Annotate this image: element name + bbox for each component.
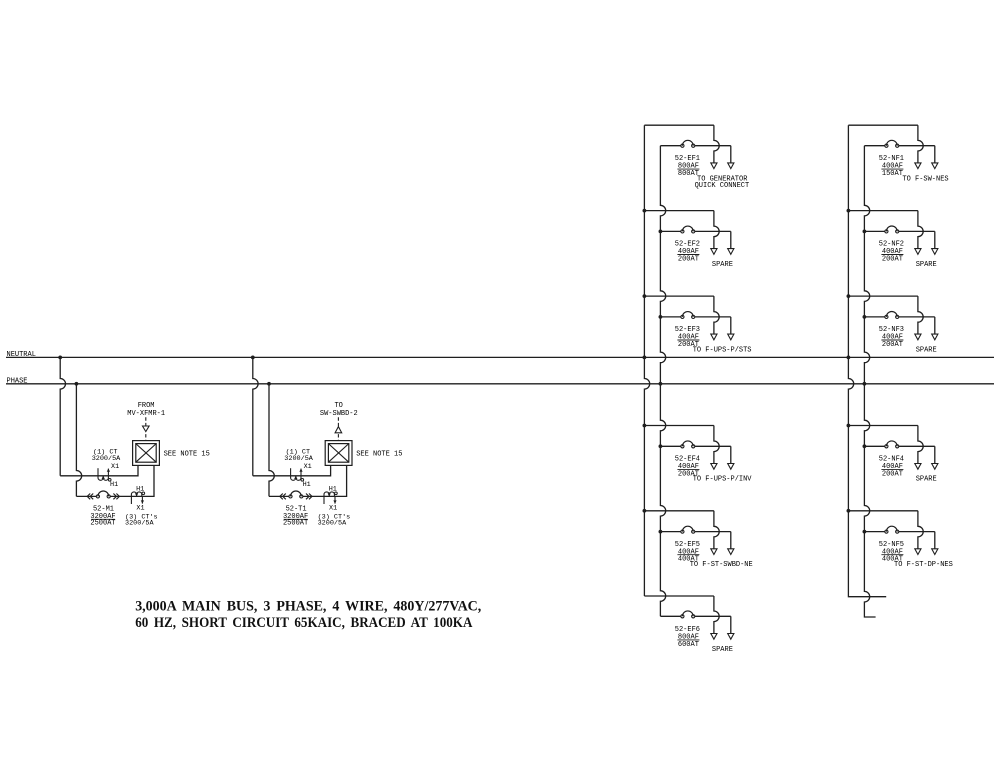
wire: neutral drop to arrow with hop over feeder: [714, 596, 719, 634]
svg-text:TO F-ST-DP-NES: TO F-ST-DP-NES: [894, 561, 953, 569]
svg-text:TO F-UPS-P/STS: TO F-UPS-P/STS: [693, 346, 752, 354]
svg-text:PHASE: PHASE: [7, 378, 28, 386]
wire: neutral drop to arrow with hop over feeder: [918, 125, 923, 163]
load arrow (neutral): [915, 163, 921, 169]
junction node riser/feeder row 3: [659, 315, 663, 319]
wire: cell top (neutral): [644, 510, 714, 512]
load arrow (phase): [728, 464, 734, 470]
svg-text:QUICK CONNECT: QUICK CONNECT: [695, 182, 750, 190]
svg-text:200AT: 200AT: [882, 470, 903, 478]
load arrow (phase): [932, 334, 938, 340]
svg-text:SPARE: SPARE: [916, 476, 937, 484]
wire: neutral drop to arrow with hop over feeder: [714, 125, 719, 163]
wire: phase drop to arrow: [730, 231, 732, 248]
CT (1) 3200/5A on upper wire: [92, 449, 121, 489]
drawout breaker 52-T1: [280, 494, 283, 500]
load arrow (phase): [728, 634, 734, 640]
CT (3) 3200/5A on lower wire: [318, 485, 351, 527]
junction node riser/top row 4: [643, 424, 647, 428]
junction node riser/top row 5: [847, 509, 851, 513]
feeder breaker cell 52-NF5: [848, 511, 952, 569]
wire: EF neutral riser: [644, 125, 649, 596]
svg-text:H1: H1: [329, 485, 337, 493]
load arrow (phase): [728, 163, 734, 169]
junction node riser/top row 4: [847, 424, 851, 428]
wire: EF phase riser: [660, 146, 665, 617]
wire: feeder through breaker 52-EF6: [660, 615, 680, 617]
wire: neutral drop with hop over phase bus: [253, 357, 258, 475]
svg-text:SEE NOTE 15: SEE NOTE 15: [356, 451, 402, 459]
wire: neutral drop to arrow with hop over feeder: [918, 296, 923, 334]
junction node NF neutral riser to neutral bus: [847, 356, 851, 360]
wire: NF neutral riser: [848, 125, 886, 597]
wire: phase drop with hop over upper wire: [76, 384, 81, 497]
wire: feeder through breaker 52-NF3: [864, 316, 884, 318]
svg-text:200AT: 200AT: [882, 341, 903, 349]
wire: phase drop with hop over upper wire: [269, 384, 274, 497]
neutral bus: [6, 356, 994, 358]
svg-text:SPARE: SPARE: [712, 646, 733, 654]
svg-text:200AT: 200AT: [882, 256, 903, 264]
svg-text:NEUTRAL: NEUTRAL: [7, 351, 36, 359]
wire: lower run to breaker: [76, 495, 96, 497]
wire: neutral drop to arrow with hop over feeder: [714, 296, 719, 334]
drawout breaker 52-M1: [87, 494, 90, 500]
load arrow (neutral): [711, 334, 717, 340]
load arrow (phase): [932, 464, 938, 470]
feeder breaker cell 52-NF2: [848, 211, 938, 269]
svg-text:3200/5A: 3200/5A: [125, 520, 154, 528]
breaker 52-EF6: [681, 615, 684, 618]
junction node on phase bus: [267, 382, 271, 386]
svg-text:TO F-ST-SWBD-NE: TO F-ST-SWBD-NE: [690, 561, 753, 569]
breaker 52-EF5: [681, 530, 684, 533]
load arrow (neutral): [915, 464, 921, 470]
wire: neutral drop to arrow with hop over feeder: [918, 511, 923, 549]
junction node riser/feeder row 3: [863, 315, 867, 319]
wire: cell top (neutral): [848, 124, 918, 126]
wire: cell top (neutral): [848, 425, 918, 427]
feeder breaker cell 52-NF1: [848, 125, 948, 183]
wire: neutral drop to arrow with hop over feeder: [714, 511, 719, 549]
feeder breaker cell 52-EF2: [644, 211, 734, 269]
wire: feeder through breaker 52-NF5: [864, 531, 884, 533]
wire: feeder through breaker 52-EF2: [660, 230, 680, 232]
feeder breaker cell 52-EF3: [644, 296, 751, 354]
load arrow (neutral): [711, 549, 717, 555]
breaker 52-NF3: [885, 315, 888, 318]
junction node on phase bus: [75, 382, 79, 386]
feeder breaker cell 52-EF6: [644, 596, 734, 654]
svg-text:FROM: FROM: [138, 402, 155, 410]
junction node riser/top row 2: [643, 209, 647, 213]
svg-text:2500AT: 2500AT: [90, 520, 115, 528]
load arrow (neutral): [915, 334, 921, 340]
incoming/outgoing feeder arrow (TO SW-SWBD-2): [320, 402, 358, 441]
svg-text:600AT: 600AT: [678, 641, 699, 649]
wire: feeder through breaker 52-NF1: [864, 145, 884, 147]
wire: cell top (neutral): [848, 295, 918, 297]
incoming/outgoing feeder arrow (FROM MV-XFMR-1): [127, 402, 165, 441]
svg-text:MV-XFMR-1: MV-XFMR-1: [127, 410, 165, 418]
feeder breaker cell 52-NF4: [848, 426, 938, 484]
load arrow (neutral): [915, 549, 921, 555]
wire: phase drop to arrow: [934, 146, 936, 163]
wire: lower run to breaker: [269, 495, 289, 497]
junction node riser/top row 3: [847, 294, 851, 298]
svg-text:3200/5A: 3200/5A: [318, 520, 347, 528]
breaker 52-NF4: [885, 445, 888, 448]
junction node riser/feeder row 4: [863, 444, 867, 448]
wire: phase drop to arrow: [934, 446, 936, 463]
wire: cell top (neutral): [644, 124, 714, 126]
wire: upper secondary run to box: [60, 465, 138, 475]
svg-text:3200/5A: 3200/5A: [92, 455, 121, 463]
breaker 52-EF2: [681, 230, 684, 233]
load arrow (phase): [932, 549, 938, 555]
breaker 52-NF5: [885, 530, 888, 533]
wire: feeder through breaker 52-EF5: [660, 531, 680, 533]
junction node riser/feeder row 2: [863, 230, 867, 234]
wire: phase drop to arrow: [730, 317, 732, 334]
load arrow (neutral): [711, 464, 717, 470]
svg-text:X1: X1: [136, 504, 144, 512]
svg-text:H1: H1: [110, 481, 118, 489]
load arrow (neutral): [711, 634, 717, 640]
wire: neutral drop to arrow with hop over feeder: [714, 211, 719, 249]
svg-text:TO: TO: [334, 402, 342, 410]
wire: neutral drop to arrow with hop over feeder: [918, 211, 923, 249]
wire: neutral drop to arrow with hop over feeder: [918, 426, 923, 464]
junction node riser/top row 3: [643, 294, 647, 298]
main circuit 52-M1: [58, 356, 210, 528]
svg-text:200AT: 200AT: [678, 256, 699, 264]
wire: neutral drop with hop over phase bus: [60, 357, 65, 475]
feeder breaker cell 52-EF1: [644, 125, 749, 190]
phase bus: [6, 383, 994, 385]
wire: phase drop to arrow: [730, 446, 732, 463]
wire: phase drop to arrow: [730, 532, 732, 549]
wire: feeder through breaker 52-EF1: [660, 145, 680, 147]
wire: cell top (neutral): [644, 295, 714, 297]
wire: feeder through breaker 52-EF4: [660, 445, 680, 447]
load arrow (phase): [932, 163, 938, 169]
main circuit 52-T1: [251, 356, 403, 528]
wire: phase drop to arrow: [934, 231, 936, 248]
load arrow (neutral): [915, 249, 921, 255]
svg-text:SPARE: SPARE: [916, 261, 937, 269]
wire: phase drop to arrow: [730, 616, 732, 633]
wire: phase drop to arrow: [730, 146, 732, 163]
CT (1) 3200/5A on upper wire: [284, 449, 313, 489]
junction node riser/feeder row 2: [659, 230, 663, 234]
svg-text:SPARE: SPARE: [712, 261, 733, 269]
svg-text:3,000A MAIN BUS, 3 PHASE, 4 WI: 3,000A MAIN BUS, 3 PHASE, 4 WIRE, 480Y/2…: [135, 598, 481, 614]
load arrow (neutral): [711, 249, 717, 255]
breaker 52-EF1: [681, 144, 684, 147]
svg-text:SEE NOTE 15: SEE NOTE 15: [164, 451, 210, 459]
svg-text:H1: H1: [303, 481, 311, 489]
junction node riser/feeder row 5: [863, 530, 867, 534]
svg-text:H1: H1: [136, 485, 144, 493]
wire: phase drop to arrow: [934, 532, 936, 549]
junction node on neutral bus: [251, 356, 255, 360]
wire: cell top (neutral): [644, 425, 714, 427]
wire: phase drop to arrow: [934, 317, 936, 334]
feeder breaker cell 52-NF3: [848, 296, 938, 354]
CT (3) 3200/5A on lower wire: [125, 485, 158, 527]
svg-text:150AT: 150AT: [882, 170, 903, 178]
svg-text:2500AT: 2500AT: [283, 520, 308, 528]
wire: neutral drop to arrow with hop over feeder: [714, 426, 719, 464]
svg-text:X1: X1: [111, 463, 119, 471]
wire: lower run from breaker to box: [303, 465, 347, 496]
breaker 52-EF3: [681, 315, 684, 318]
load arrow (phase): [932, 249, 938, 255]
feeder breaker cell 52-EF4: [644, 426, 752, 484]
load arrow (phase): [728, 549, 734, 555]
wire: cell top (neutral): [848, 510, 918, 512]
wire: cell top (neutral): [848, 210, 918, 212]
breaker 52-NF1: [885, 144, 888, 147]
load arrow (phase): [728, 334, 734, 340]
svg-text:TO F-SW-NES: TO F-SW-NES: [902, 175, 948, 183]
junction node EF phase riser to phase bus: [659, 382, 663, 386]
junction node on neutral bus: [58, 356, 62, 360]
junction node riser/feeder row 4: [659, 444, 663, 448]
svg-text:3200/5A: 3200/5A: [284, 455, 313, 463]
breaker 52-EF4: [681, 445, 684, 448]
load arrow (phase): [728, 249, 734, 255]
svg-text:X1: X1: [304, 463, 312, 471]
wire: NF phase riser: [864, 146, 875, 617]
junction node riser/feeder row 5: [659, 530, 663, 534]
breaker 52-NF2: [885, 230, 888, 233]
transformer/meter box (SEE NOTE 15): [325, 441, 352, 466]
junction node EF neutral riser to neutral bus: [643, 356, 647, 360]
feeder breaker cell 52-EF5: [644, 511, 752, 569]
svg-text:TO F-UPS-P/INV: TO F-UPS-P/INV: [693, 476, 753, 484]
junction node NF phase riser to phase bus: [863, 382, 867, 386]
wire: feeder through breaker 52-NF2: [864, 230, 884, 232]
wire: feeder through breaker 52-EF3: [660, 316, 680, 318]
wire: cell top (neutral): [644, 595, 714, 597]
junction node riser/top row 5: [643, 509, 647, 513]
wire: cell top (neutral): [644, 210, 714, 212]
svg-text:SW-SWBD-2: SW-SWBD-2: [320, 410, 358, 418]
svg-text:X1: X1: [329, 504, 337, 512]
wire: lower run from breaker to box: [110, 465, 154, 496]
svg-text:60 HZ, SHORT CIRCUIT 65KAIC, B: 60 HZ, SHORT CIRCUIT 65KAIC, BRACED AT 1…: [135, 614, 472, 630]
load arrow (neutral): [711, 163, 717, 169]
wire: feeder through breaker 52-NF4: [864, 445, 884, 447]
junction node riser/top row 2: [847, 209, 851, 213]
wire: upper secondary run to box: [253, 465, 331, 475]
transformer/meter box (SEE NOTE 15): [133, 441, 160, 466]
svg-text:800AT: 800AT: [678, 170, 699, 178]
svg-text:SPARE: SPARE: [916, 346, 937, 354]
